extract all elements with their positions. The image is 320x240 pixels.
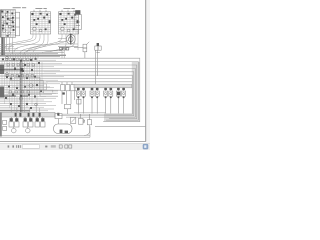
- mesh dark blobs: [2, 58, 42, 109]
- pump P1: [66, 34, 75, 44]
- wire pump outlet: [58, 39, 78, 44]
- page right margin: [146, 0, 150, 150]
- shuttle valve S2 solenoid: [97, 43, 99, 46]
- wire curves V3 to bus: [27, 34, 75, 53]
- status bar side-panel icon: [143, 144, 149, 150]
- wire bus-to-mesh drops: [8, 54, 38, 59]
- wire drop from V1 (dark pair): [1, 37, 3, 55]
- wire mesh verticals: [2, 58, 42, 112]
- pilot valve V4: [75, 15, 82, 34]
- shuttle valve S2: [95, 46, 101, 84]
- work valve W4: [116, 88, 125, 114]
- valve block V1 left edge: [0, 10, 2, 38]
- mesh dark box: [20, 68, 23, 71]
- valve block V2 dark elements: [31, 13, 50, 30]
- wire curves V2 to bus: [8, 34, 44, 54]
- wire center nested corners: [8, 77, 60, 96]
- wire main bus nested loops: [36, 58, 140, 121]
- work valve W1: [76, 88, 85, 114]
- relief valve R1: [78, 114, 85, 124]
- status bar page input: [22, 145, 39, 149]
- mesh component row (small boxes): [6, 58, 35, 93]
- page bottom border: [0, 140, 146, 142]
- wire mesh horizontals: [0, 58, 64, 111]
- status bar: [0, 143, 150, 150]
- wire verticals x62-64: [62, 47, 64, 59]
- control valve CV1 dark mark: [62, 92, 64, 94]
- junction box J1 tick: [57, 113, 59, 116]
- pipe band bottom (right): [104, 113, 140, 121]
- wire dark vertical pair x20: [21, 60, 22, 112]
- label above V3: [63, 8, 70, 9]
- valve block V1 dark elements: [1, 11, 14, 37]
- brake valve B1: [9, 117, 19, 133]
- mesh dark accents: [0, 70, 30, 111]
- wire bottom return lines: [0, 126, 90, 137]
- control valve CV1: [61, 82, 78, 114]
- valve block V1: [1, 10, 20, 38]
- shuttle valve S1: [74, 42, 89, 58]
- wire upper bus horizontals: [0, 51, 64, 57]
- mesh circle pump: [29, 84, 33, 88]
- pipe band vertical (right): [132, 62, 140, 114]
- relief valve R2: [87, 114, 91, 125]
- wire V1 pilot drops: [7, 37, 13, 53]
- brake valve B3: [35, 117, 45, 127]
- valve block V3 dark elements: [59, 13, 78, 30]
- valve block V3: [58, 12, 78, 34]
- return gallery band bottom-left: [0, 112, 55, 117]
- wire curves V2b to bus: [5, 34, 48, 55]
- mesh small circles: [6, 56, 38, 106]
- aux blocks: [3, 120, 7, 130]
- work valve W3: [104, 88, 113, 114]
- tank T1: [54, 124, 72, 133]
- page right border: [145, 0, 147, 142]
- label above V2: [35, 8, 42, 9]
- manifold hatched edge: [0, 112, 2, 136]
- label above V1: [13, 7, 21, 8]
- status bar nav icons: [8, 145, 21, 148]
- wire curve V3b to bus: [33, 34, 70, 53]
- junction box J1: [55, 114, 62, 124]
- pump strainer row: [59, 47, 68, 50]
- check valve K1: [70, 117, 75, 123]
- supply gallery band: [74, 84, 132, 88]
- wire long return line: [95, 125, 145, 127]
- aux valve under W1: [77, 99, 81, 104]
- work valve W2: [90, 88, 99, 114]
- pilot valve V4 solenoid: [75, 10, 80, 14]
- status bar zoom icons: [45, 145, 56, 147]
- wire drops to brake valves: [11, 104, 39, 118]
- tank T1 fittings: [60, 130, 68, 134]
- wire V4 drop: [77, 34, 79, 50]
- mesh hatched manifolds: [0, 65, 4, 75]
- valve row footer line: [74, 111, 106, 113]
- valve block V2: [30, 12, 50, 34]
- brake valve B2: [23, 117, 33, 133]
- wire short lines upper-left: [0, 44, 58, 48]
- pump P1 shaft: [70, 34, 72, 45]
- wire return u-loop: [84, 125, 90, 136]
- gallery band ticks: [15, 113, 41, 117]
